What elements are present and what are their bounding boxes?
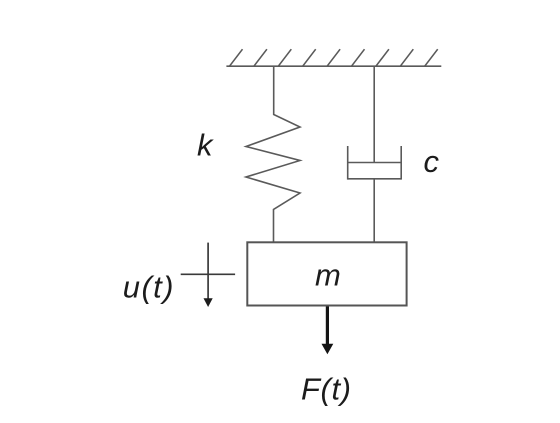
svg-text:c: c — [424, 144, 440, 179]
svg-text:k: k — [197, 127, 214, 162]
svg-text:m: m — [315, 257, 341, 292]
svg-text:u(t): u(t) — [123, 270, 175, 305]
svg-text:F(t): F(t) — [301, 372, 352, 407]
